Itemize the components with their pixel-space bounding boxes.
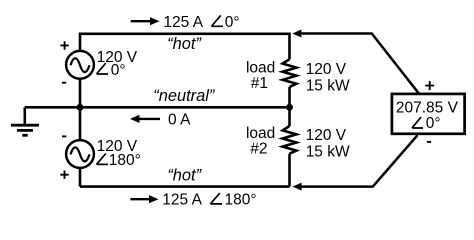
svg-text:180°: 180° — [109, 152, 141, 169]
node neutral-source junction — [77, 104, 84, 111]
node neutral-load junction — [286, 104, 293, 111]
svg-text:120 V: 120 V — [306, 61, 347, 78]
source V1 minus — [62, 82, 66, 84]
label 125 A angle 180 (bottom) — [162, 192, 256, 209]
svg-text:“hot”: “hot” — [167, 167, 202, 185]
arrow bottom current — [130, 195, 158, 203]
source V1 — [66, 51, 94, 79]
label load #2 — [246, 125, 275, 158]
svg-text:0°: 0° — [426, 115, 441, 132]
source V2 minus — [62, 135, 66, 137]
wire load #2 top lead — [288, 107, 291, 126]
svg-text:0 A: 0 A — [168, 111, 191, 128]
svg-text:180°: 180° — [225, 192, 257, 209]
label load #1 — [246, 60, 275, 92]
label angle 180 (V2) — [97, 152, 141, 169]
svg-text:15 kW: 15 kW — [306, 143, 350, 160]
svg-text:load: load — [246, 125, 275, 142]
resistor load #2 — [283, 126, 297, 154]
label angle 0 (V1) — [97, 62, 126, 79]
svg-text:15 kW: 15 kW — [306, 78, 350, 95]
wire source V2 top lead — [79, 107, 82, 140]
wire source V2 bottom lead — [79, 168, 82, 186]
label 120 V 15 kW (load 1) — [306, 61, 350, 94]
wire source V1 bottom lead — [79, 79, 82, 107]
arrow top current — [131, 17, 160, 25]
svg-text:“neutral”: “neutral” — [153, 87, 216, 105]
voltmeter box minus — [427, 141, 431, 143]
source V2 plus — [60, 171, 68, 179]
svg-text:0°: 0° — [225, 14, 240, 31]
svg-text:“hot”: “hot” — [167, 35, 202, 53]
label 125 A angle 0 (top) — [163, 14, 239, 31]
wire neutral rail — [25, 106, 290, 109]
wire top measurement connector — [292, 30, 419, 94]
voltmeter box plus — [425, 81, 434, 90]
wire load #2 bottom lead — [288, 154, 291, 187]
svg-text:#2: #2 — [250, 141, 267, 158]
label 120 V 15 kW (load 2) — [306, 127, 350, 161]
arrow 0 A neutral current — [130, 115, 160, 123]
source V1 plus — [60, 41, 68, 49]
source V2 — [66, 140, 94, 168]
resistor load #1 — [283, 59, 297, 87]
svg-text:125 A: 125 A — [162, 192, 202, 209]
wire bottom measurement connector — [293, 135, 418, 190]
svg-text:#1: #1 — [251, 75, 268, 92]
svg-text:0°: 0° — [111, 62, 126, 79]
svg-text:120 V: 120 V — [306, 127, 347, 144]
ground — [11, 107, 39, 135]
svg-text:125 A: 125 A — [163, 14, 203, 31]
label angle 0 (box) — [412, 115, 441, 132]
voltmeter box — [392, 94, 465, 134]
wire bottom hot rail — [80, 185, 290, 188]
wire load #1 bottom lead — [288, 87, 291, 107]
wire top hot rail — [80, 34, 290, 59]
svg-text:207.85 V: 207.85 V — [396, 100, 459, 117]
